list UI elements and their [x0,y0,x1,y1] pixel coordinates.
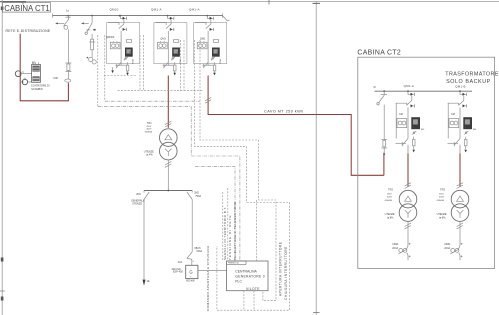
svg-text:TR1: TR1 [147,121,152,125]
svg-text:SEGNALI DI TERRITORIO B.T.: SEGNALI DI TERRITORIO B.T. [223,206,227,260]
svg-text:RETE E-DISTRIBUZIONE: RETE E-DISTRIBUZIONE [6,29,51,33]
svg-text:516A: 516A [196,250,202,253]
svg-text:400V: 400V [147,129,152,131]
svg-text:ta 8%: ta 8% [439,216,446,219]
svg-text:~: ~ [190,274,192,278]
svg-text:630kVA: 630kVA [437,199,445,202]
svg-text:200A: 200A [392,247,398,250]
svg-text:TR3: TR3 [440,188,445,192]
svg-text:200A: 200A [444,247,450,250]
svg-text:25kV: 25kV [439,194,444,196]
svg-text:QM400: QM400 [106,36,115,39]
svg-text:C3P: C3P [53,77,58,80]
svg-text:PRESE 512: PRESE 512 [228,263,240,265]
svg-text:QM1-A: QM1-A [404,84,414,88]
svg-text:QM1-A: QM1-A [151,8,162,12]
svg-text:QM1-B: QM1-B [455,84,465,88]
svg-text:CAVO MT 250 kWh: CAVO MT 250 kWh [264,110,304,114]
svg-text:SOLO BACKUP: SOLO BACKUP [446,79,491,85]
svg-text:2M1: 2M1 [136,193,141,196]
svg-text:UTENZE: UTENZE [132,203,142,206]
svg-text:QM10: QM10 [110,8,119,12]
svg-text:CENTRALINA: CENTRALINA [235,269,257,273]
svg-text:QM1-A: QM1-A [189,8,200,12]
svg-text:VILOTE: VILOTE [246,287,260,291]
svg-text:TENSIONE DI RETE: TENSIONE DI RETE [228,214,232,260]
svg-text:APERTURA INTERRUTTORE: APERTURA INTERRUTTORE [278,242,282,296]
svg-text:630A: 630A [132,59,135,64]
svg-text:TRASFORMATORE: TRASFORMATORE [445,71,499,77]
svg-text:25kV: 25kV [147,126,152,128]
svg-text:400V: 400V [439,197,444,199]
svg-text:QM1: QM1 [160,37,166,40]
svg-text:PLC: PLC [235,279,242,283]
svg-text:M: M [374,86,376,89]
svg-text:TR2: TR2 [388,188,393,192]
svg-text:CM: CM [451,113,455,116]
svg-text:25kV: 25kV [387,194,392,196]
svg-text:2E: 2E [147,280,150,283]
svg-text:CB21: CB21 [392,243,399,246]
svg-text:GENERATORE 0: GENERATORE 0 [235,275,265,279]
svg-text:630A: 630A [219,59,222,64]
svg-text:CM: CM [399,113,403,116]
svg-text:CB31: CB31 [444,243,451,246]
svg-text:750A: 750A [195,195,201,198]
svg-text:COMANDO APERTURA E CHIUSURA: COMANDO APERTURA E CHIUSURA [206,245,210,311]
svg-text:CABINA CT2: CABINA CT2 [357,50,401,57]
svg-text:630kVA: 630kVA [145,131,153,134]
svg-text:SCAMBIO: SCAMBIO [31,88,43,91]
svg-text:ta 8%: ta 8% [387,216,394,219]
svg-text:600 kW: 600 kW [186,279,195,282]
svg-text:CHIUSURA INTERRUTTORE: CHIUSURA INTERRUTTORE [284,246,288,300]
svg-text:ta 4%: ta 4% [146,154,153,157]
svg-text:2G1: 2G1 [178,261,183,264]
svg-text:630kVA: 630kVA [385,199,393,202]
svg-text:QM1: QM1 [200,37,206,40]
svg-text:ESP 400: ESP 400 [173,270,183,273]
svg-text:400V: 400V [387,197,392,199]
svg-text:M1: M1 [32,61,36,65]
svg-text:TELELETTURE O TELEGESTIONE: TELELETTURE O TELEGESTIONE [233,201,237,260]
svg-text:CABINA CT1: CABINA CT1 [4,4,50,13]
